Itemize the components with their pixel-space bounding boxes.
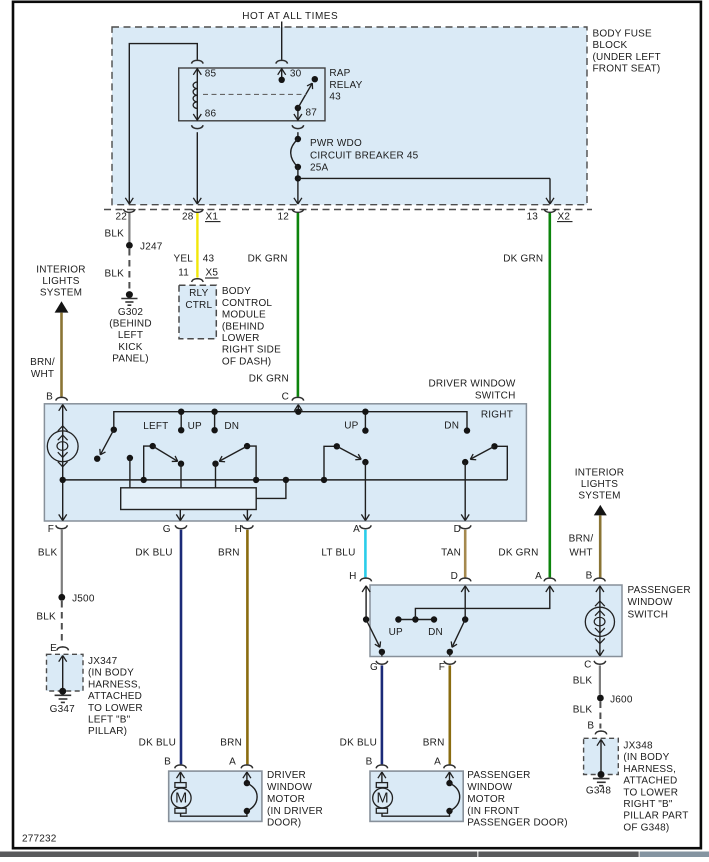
svg-text:BLOCK: BLOCK bbox=[593, 40, 628, 51]
svg-text:C: C bbox=[584, 659, 591, 670]
svg-text:PASSENGER DOOR): PASSENGER DOOR) bbox=[467, 818, 568, 829]
svg-text:SYSTEM: SYSTEM bbox=[40, 288, 82, 299]
svg-text:F: F bbox=[439, 662, 445, 673]
svg-text:43: 43 bbox=[203, 254, 215, 265]
svg-text:BLK: BLK bbox=[38, 548, 58, 559]
svg-text:HARNESS,: HARNESS, bbox=[88, 679, 141, 690]
svg-text:DN: DN bbox=[428, 627, 443, 638]
svg-text:28: 28 bbox=[182, 211, 194, 222]
svg-text:RELAY: RELAY bbox=[329, 80, 362, 91]
svg-text:SWITCH: SWITCH bbox=[475, 390, 516, 401]
svg-text:BRN/: BRN/ bbox=[30, 357, 55, 368]
svg-text:D: D bbox=[454, 524, 461, 535]
svg-text:H: H bbox=[349, 571, 356, 582]
svg-text:DK GRN: DK GRN bbox=[249, 374, 289, 385]
svg-text:MOTOR: MOTOR bbox=[467, 794, 505, 805]
svg-text:(IN DRIVER: (IN DRIVER bbox=[267, 806, 323, 817]
svg-text:RIGHT: RIGHT bbox=[481, 410, 513, 421]
svg-text:G347: G347 bbox=[50, 704, 76, 715]
svg-text:DOOR): DOOR) bbox=[267, 818, 301, 829]
svg-text:PILLAR PART: PILLAR PART bbox=[623, 811, 688, 822]
svg-text:WINDOW: WINDOW bbox=[628, 597, 673, 608]
svg-text:(BEHIND: (BEHIND bbox=[222, 321, 265, 332]
svg-text:BODY FUSE: BODY FUSE bbox=[593, 29, 653, 40]
svg-text:87: 87 bbox=[306, 108, 318, 119]
svg-text:LOWER: LOWER bbox=[222, 333, 260, 344]
svg-text:TO LOWER: TO LOWER bbox=[88, 703, 143, 714]
svg-text:M: M bbox=[175, 791, 187, 807]
svg-text:CTRL: CTRL bbox=[185, 300, 212, 311]
svg-text:CONTROL: CONTROL bbox=[222, 298, 273, 309]
svg-text:22: 22 bbox=[115, 211, 127, 222]
svg-text:(IN BODY: (IN BODY bbox=[88, 668, 134, 679]
svg-text:HOT AT ALL TIMES: HOT AT ALL TIMES bbox=[242, 11, 338, 22]
svg-text:LEFT: LEFT bbox=[118, 330, 143, 341]
svg-text:G: G bbox=[163, 524, 171, 535]
svg-text:A: A bbox=[434, 757, 441, 768]
svg-text:J600: J600 bbox=[610, 694, 633, 705]
svg-text:11: 11 bbox=[178, 268, 189, 279]
svg-text:C: C bbox=[282, 391, 289, 402]
svg-text:12: 12 bbox=[277, 211, 289, 222]
svg-text:RIGHT "B": RIGHT "B" bbox=[623, 799, 673, 810]
svg-text:86: 86 bbox=[205, 108, 217, 119]
svg-text:BRN/: BRN/ bbox=[569, 533, 594, 544]
svg-text:SWITCH: SWITCH bbox=[628, 609, 669, 620]
svg-text:B: B bbox=[586, 571, 593, 582]
svg-text:LEFT: LEFT bbox=[143, 421, 168, 432]
svg-text:LIGHTS: LIGHTS bbox=[581, 479, 618, 490]
svg-text:J500: J500 bbox=[72, 593, 95, 604]
svg-text:DN: DN bbox=[224, 421, 239, 432]
svg-text:A: A bbox=[535, 571, 542, 582]
svg-text:MODULE: MODULE bbox=[222, 310, 266, 321]
svg-text:OF G348): OF G348) bbox=[623, 822, 669, 833]
svg-text:PILLAR): PILLAR) bbox=[88, 726, 127, 737]
svg-text:WINDOW: WINDOW bbox=[267, 782, 312, 793]
svg-text:TAN: TAN bbox=[441, 548, 461, 559]
svg-text:X5: X5 bbox=[206, 268, 219, 279]
svg-text:85: 85 bbox=[205, 69, 217, 80]
svg-text:WINDOW: WINDOW bbox=[467, 782, 512, 793]
svg-text:DRIVER: DRIVER bbox=[267, 770, 306, 781]
svg-text:M: M bbox=[377, 791, 389, 807]
svg-text:25A: 25A bbox=[310, 163, 329, 174]
svg-text:BRN: BRN bbox=[218, 548, 240, 559]
svg-text:RIGHT SIDE: RIGHT SIDE bbox=[222, 345, 281, 356]
svg-text:LT BLU: LT BLU bbox=[321, 548, 355, 559]
svg-text:DK BLU: DK BLU bbox=[139, 738, 176, 749]
svg-text:13: 13 bbox=[526, 211, 538, 222]
svg-text:KICK: KICK bbox=[118, 342, 142, 353]
svg-text:SYSTEM: SYSTEM bbox=[578, 491, 620, 502]
svg-text:WHT: WHT bbox=[31, 369, 54, 380]
svg-text:43: 43 bbox=[329, 92, 341, 103]
svg-text:JX347: JX347 bbox=[88, 656, 118, 667]
svg-text:UP: UP bbox=[188, 421, 202, 432]
svg-text:(BEHIND: (BEHIND bbox=[109, 319, 152, 330]
svg-text:B: B bbox=[587, 721, 594, 732]
svg-text:BLK: BLK bbox=[104, 269, 124, 280]
svg-text:LIGHTS: LIGHTS bbox=[42, 276, 79, 287]
svg-text:BLK: BLK bbox=[104, 228, 124, 239]
svg-text:X1: X1 bbox=[206, 211, 219, 222]
svg-text:PWR WDO: PWR WDO bbox=[310, 138, 362, 149]
svg-text:BODY: BODY bbox=[222, 286, 251, 297]
svg-text:BRN: BRN bbox=[423, 738, 445, 749]
svg-text:F: F bbox=[48, 524, 54, 535]
svg-text:DK BLU: DK BLU bbox=[340, 738, 377, 749]
svg-text:WHT: WHT bbox=[569, 547, 592, 558]
svg-text:H: H bbox=[235, 524, 242, 535]
svg-text:YEL: YEL bbox=[173, 254, 193, 265]
svg-text:B: B bbox=[366, 757, 373, 768]
svg-text:CIRCUIT BREAKER 45: CIRCUIT BREAKER 45 bbox=[310, 150, 419, 161]
svg-text:DRIVER WINDOW: DRIVER WINDOW bbox=[428, 379, 515, 390]
svg-text:HARNESS,: HARNESS, bbox=[623, 764, 676, 775]
svg-text:OF DASH): OF DASH) bbox=[222, 356, 271, 367]
svg-text:BRN: BRN bbox=[220, 738, 242, 749]
svg-text:A: A bbox=[353, 524, 360, 535]
svg-text:X2: X2 bbox=[558, 211, 571, 222]
svg-text:B: B bbox=[46, 391, 53, 402]
svg-text:ATTACHED: ATTACHED bbox=[623, 776, 677, 787]
svg-text:TO LOWER: TO LOWER bbox=[623, 787, 678, 798]
svg-text:PASSENGER: PASSENGER bbox=[628, 585, 691, 596]
svg-text:30: 30 bbox=[290, 69, 302, 80]
svg-text:INTERIOR: INTERIOR bbox=[36, 264, 85, 275]
svg-text:E: E bbox=[50, 643, 57, 654]
svg-text:PASSENGER: PASSENGER bbox=[467, 770, 530, 781]
svg-text:DK GRN: DK GRN bbox=[248, 254, 288, 265]
svg-text:PANEL): PANEL) bbox=[112, 354, 149, 365]
svg-text:FRONT SEAT): FRONT SEAT) bbox=[593, 64, 661, 75]
svg-text:277232: 277232 bbox=[22, 834, 57, 845]
svg-text:DK GRN: DK GRN bbox=[503, 254, 543, 265]
svg-text:UP: UP bbox=[344, 421, 358, 432]
svg-text:INTERIOR: INTERIOR bbox=[575, 467, 624, 478]
svg-text:(UNDER LEFT: (UNDER LEFT bbox=[593, 52, 661, 63]
svg-text:BLK: BLK bbox=[36, 612, 56, 623]
svg-text:B: B bbox=[164, 757, 171, 768]
svg-text:G348: G348 bbox=[586, 786, 612, 797]
svg-text:G: G bbox=[370, 662, 378, 673]
svg-text:D: D bbox=[451, 571, 458, 582]
svg-text:ATTACHED: ATTACHED bbox=[88, 691, 142, 702]
svg-text:DK GRN: DK GRN bbox=[498, 548, 538, 559]
svg-text:(IN FRONT: (IN FRONT bbox=[467, 806, 519, 817]
svg-text:BLK: BLK bbox=[573, 704, 593, 715]
svg-text:A: A bbox=[229, 757, 236, 768]
svg-text:DK BLU: DK BLU bbox=[135, 548, 172, 559]
svg-text:RLY: RLY bbox=[189, 288, 208, 299]
svg-text:RAP: RAP bbox=[329, 68, 350, 79]
svg-text:G302: G302 bbox=[118, 307, 144, 318]
svg-text:JX348: JX348 bbox=[623, 741, 653, 752]
svg-text:LEFT "B": LEFT "B" bbox=[88, 715, 131, 726]
svg-text:BLK: BLK bbox=[573, 676, 593, 687]
svg-text:J247: J247 bbox=[140, 242, 163, 253]
svg-text:UP: UP bbox=[389, 627, 403, 638]
svg-text:MOTOR: MOTOR bbox=[267, 794, 305, 805]
svg-text:DN: DN bbox=[444, 421, 459, 432]
svg-text:(IN BODY: (IN BODY bbox=[623, 752, 669, 763]
